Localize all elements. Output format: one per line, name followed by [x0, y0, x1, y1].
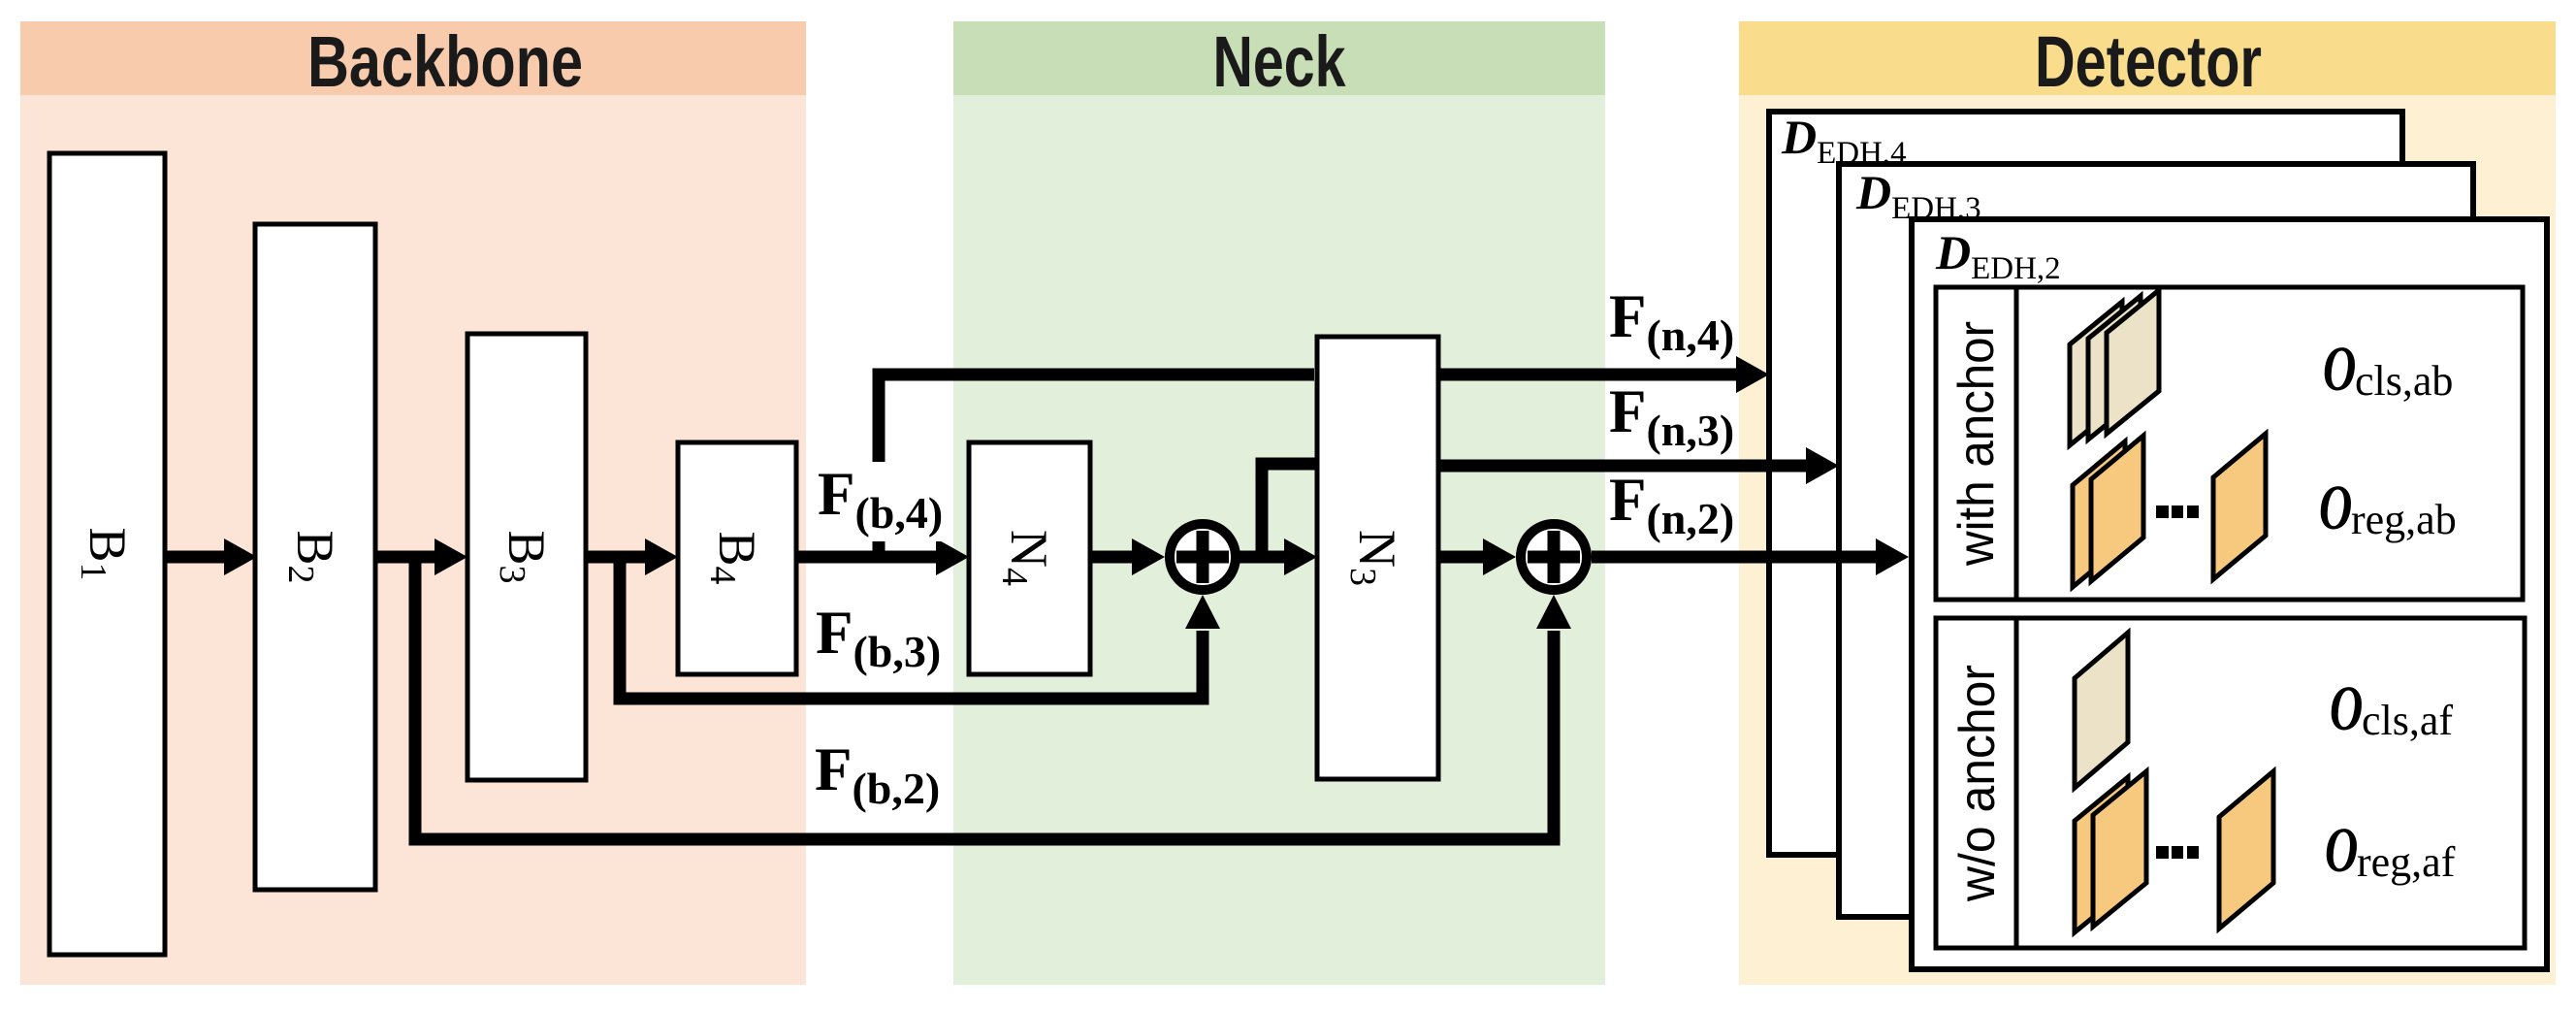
svg-text:O: O — [2319, 473, 2352, 543]
reg,ab dots — [2156, 505, 2169, 518]
block B2 — [255, 224, 375, 890]
reg,af single feature map — [2219, 771, 2273, 929]
wire adder1 to N3 — [1239, 551, 1286, 564]
svg-text:O: O — [2323, 335, 2356, 405]
svg-text:Neck: Neck — [1213, 21, 1347, 102]
svg-text:w/o anchor: w/o anchor — [1949, 665, 2006, 902]
wire N4 to adder 1 — [1088, 551, 1134, 564]
reg,af feature-map pair — [2075, 777, 2128, 932]
wire N3 to adder 2 — [1436, 551, 1485, 564]
svg-text:reg,af: reg,af — [2357, 838, 2456, 886]
detector panel body — [1739, 21, 2556, 985]
label F(b,4) backdrop — [813, 462, 949, 541]
block N3 — [1317, 337, 1438, 779]
wire B2 to B3 — [373, 551, 436, 564]
detector head box D_EDH,2 — [1912, 219, 2547, 969]
svg-text:with anchor: with anchor — [1948, 321, 2005, 567]
block B1 — [49, 153, 165, 955]
wire B1 to B2 — [163, 551, 226, 564]
with-anchor divider — [2014, 287, 2019, 600]
detector panel header — [1739, 21, 2556, 95]
adder 1 — [1170, 524, 1236, 590]
svg-text:Backbone: Backbone — [307, 21, 583, 102]
w/o-anchor divider — [2014, 618, 2019, 948]
block B3 — [467, 334, 586, 780]
wire F(b,3) route — [620, 557, 1203, 699]
wire B4 to N4 — [794, 551, 938, 564]
svg-text:cls,af: cls,af — [2362, 697, 2453, 744]
detector head box D_EDH,4 — [1769, 112, 2402, 855]
adder 2 — [1521, 524, 1587, 590]
with-anchor sub box — [1936, 287, 2523, 600]
neck panel body — [953, 21, 1605, 985]
wire B3 to B4 — [584, 551, 647, 564]
block N4 — [969, 442, 1090, 674]
wire F(n,4) N3 to D_EDH,4 — [1436, 369, 1738, 381]
reg,ab feature-map pair — [2073, 441, 2125, 587]
backbone panel body — [20, 21, 806, 985]
cls,ab feature-map stack (3 sheets) — [2070, 302, 2122, 445]
wire F(b,4) branch to N3 top — [879, 375, 1314, 551]
wire adder1 branch to N3 upper input — [1262, 464, 1315, 551]
svg-text:O: O — [2325, 816, 2358, 886]
w/o-anchor sub box — [1936, 618, 2525, 948]
reg,ab single feature map — [2213, 434, 2266, 579]
wire F(n,3) N3 to D_EDH,3 — [1436, 460, 1808, 473]
svg-text:Detector: Detector — [2035, 21, 2262, 102]
svg-text:reg,ab: reg,ab — [2351, 496, 2457, 543]
detector head box D_EDH,3 — [1839, 164, 2473, 917]
wire F(n,2) adder2 to detector — [1592, 551, 1878, 564]
neck panel header — [953, 21, 1605, 95]
cls,af single feature map — [2075, 633, 2128, 788]
wire F(b,2) route — [415, 557, 1554, 839]
reg,af dots — [2156, 846, 2169, 859]
svg-text:cls,ab: cls,ab — [2355, 357, 2453, 405]
block B4 — [678, 442, 796, 674]
svg-text:O: O — [2330, 674, 2363, 744]
backbone panel header — [20, 21, 806, 95]
